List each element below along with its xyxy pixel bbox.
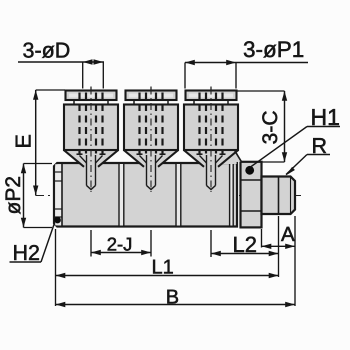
threaded stud R [262, 177, 296, 215]
dimension L1 extension line left [55, 229, 57, 306]
dimension 3-oP1 arrows [185, 60, 195, 65]
R arrowhead [286, 167, 295, 176]
dimension oP2 extension lines [24, 163, 53, 165]
thread root line [278, 177, 280, 215]
boss between fitting 3 and hex [223, 150, 239, 164]
body groove 3 (right collar) [230, 164, 233, 226]
fitting 1 body [64, 105, 118, 151]
main centerline [36, 195, 302, 197]
left end plug groove lines [55, 171, 63, 173]
body groove 2 [177, 164, 181, 226]
dimension A extension lines [261, 229, 263, 248]
fitting 1 centerline [90, 88, 92, 193]
fitting 3 bore bottom ticks [197, 153, 203, 155]
svg-text:E: E [12, 134, 36, 148]
dimension 3-oP1 extension lines [184, 63, 186, 89]
dimension E line [35, 90, 37, 195]
fitting 1 neck [73, 100, 75, 105]
hex nut [241, 162, 262, 228]
svg-text:A: A [281, 223, 295, 246]
fitting 1 bore bottom ticks [77, 153, 83, 155]
dimension 3-C extension lines [237, 90, 285, 92]
dimension 3-oD extension lines [82, 62, 84, 89]
fitting 2 centerline [150, 88, 152, 193]
fitting 1 inner cone [80, 156, 87, 164]
hex dot (H1 target) [245, 166, 254, 175]
dimension L2 extension line [210, 230, 212, 257]
fitting 2 cap [126, 91, 177, 101]
port bore 1 [87, 155, 96, 190]
fitting 1 bore hidden lines [78, 93, 80, 154]
svg-text:2-J: 2-J [107, 234, 133, 255]
fitting 3 bore hidden lines [198, 93, 200, 154]
dimension 3-oD line [18, 61, 104, 63]
fitting 3 [184, 87, 242, 193]
fitting 3 neck [193, 100, 195, 105]
left end seal dot (H2 target) [54, 217, 61, 224]
fitting 3 cap [186, 91, 237, 101]
dimension 2-J line [91, 252, 151, 254]
H1 leader [307, 126, 340, 128]
svg-text:3-C: 3-C [259, 110, 282, 144]
manifold body [54, 163, 237, 227]
dimension E extension lines [36, 89, 65, 91]
port bore 2 [147, 155, 156, 190]
dimension B line [56, 304, 296, 306]
left end plug face line [61, 163, 63, 227]
dimension 3-C line [284, 91, 286, 162]
dimension 3-oP1 line [185, 62, 308, 64]
hex flat line upper [241, 179, 262, 181]
left end plug strip [55, 164, 61, 225]
dimension A line [262, 245, 296, 247]
funnel 1 [64, 148, 119, 167]
fitting 2 [124, 87, 179, 193]
svg-text:3-øD: 3-øD [23, 39, 71, 63]
dimension L2 line [211, 253, 279, 255]
fitting 1 top tick [90, 87, 92, 91]
dimension 3-oD arrows [83, 59, 93, 64]
R leader [307, 154, 330, 156]
dimension L1 line [56, 275, 279, 277]
fitting 3 centerline [210, 88, 212, 193]
fitting 2 bore hidden lines [138, 93, 140, 154]
port bore 3 [207, 155, 216, 190]
body groove 1 [120, 164, 124, 226]
fitting 3 body [184, 105, 238, 151]
hex flat line lower [241, 210, 262, 212]
fitting 2 bore bottom ticks [137, 153, 143, 155]
funnel 2 [124, 148, 179, 167]
H2 leader [10, 261, 42, 263]
fitting 2 top tick [150, 87, 152, 91]
fitting 3 top tick [210, 87, 212, 91]
fitting 2 body [124, 105, 178, 151]
fitting 1 [64, 87, 119, 193]
dimension oP2 line [23, 164, 25, 228]
thread root extension line [278, 216, 280, 277]
funnel 3 [184, 148, 239, 167]
svg-text:3-øP1: 3-øP1 [243, 37, 304, 62]
fitting 2 inner cone [140, 156, 147, 164]
fitting 2 neck [133, 100, 135, 105]
svg-text:øP2: øP2 [2, 176, 25, 215]
fitting 1 cap [66, 91, 117, 101]
fitting 3 inner cone [200, 156, 207, 164]
dimension 2-J extension lines [90, 230, 92, 257]
thread tip chamfer line [290, 177, 292, 215]
